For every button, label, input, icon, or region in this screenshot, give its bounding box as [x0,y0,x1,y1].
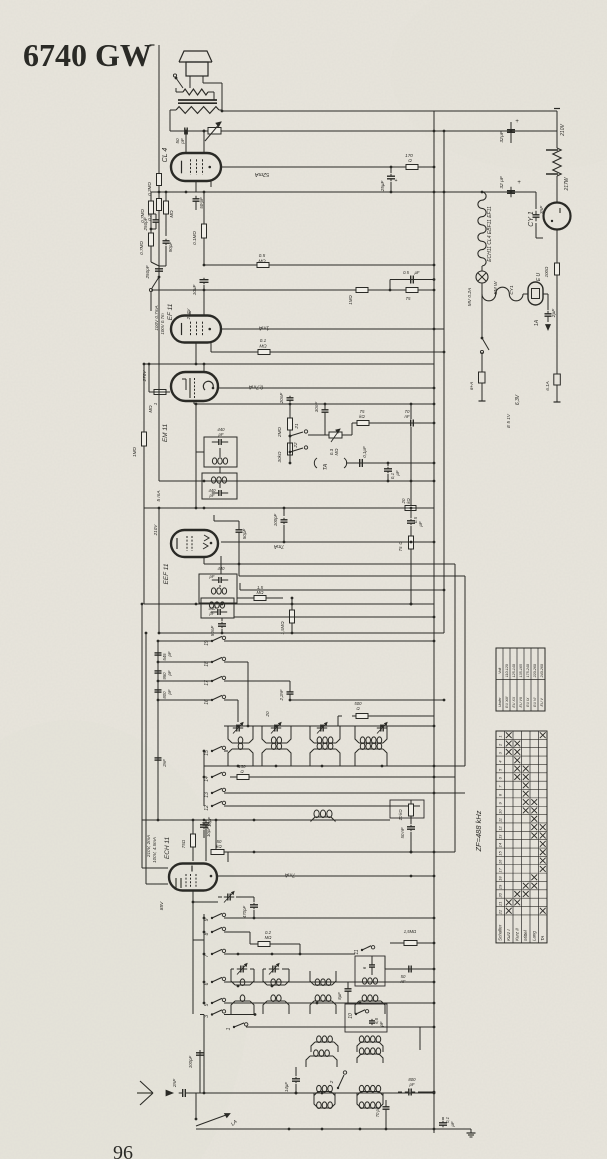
capacitor 800pF b [398,1077,435,1096]
resistor 1.5M osc [390,929,435,946]
resistor 50k [211,820,228,862]
cap stack vertical [157,641,159,820]
capacitor 32uF [499,119,519,143]
svg-text:17: 17 [498,867,503,872]
svg-text:30kΩ: 30kΩ [277,451,282,462]
loop 10k box [390,800,424,818]
svg-text:13: 13 [498,834,503,839]
label feeds [146,835,157,863]
switch o8 [204,927,226,935]
trimmer C-m [317,723,327,734]
capacitor c6 [362,956,375,975]
svg-text:14µF: 14µF [284,1082,289,1092]
switch LA [195,1093,240,1128]
resistor 0.7M b [164,191,175,236]
trimmer C-kw1 [233,723,243,734]
resistor 170ohm [398,153,426,170]
svg-text:EF 11: EF 11 [167,303,174,320]
tube EU [523,272,543,305]
resistor 0.2M b [147,192,162,221]
svg-text:EU V: EU V [540,697,544,706]
svg-text:6,3V: 6,3V [515,394,521,405]
wire [143,508,145,604]
switch a1 [226,1023,248,1031]
svg-text:96: 96 [113,1142,133,1159]
capacitor 100pF a [188,1050,204,1093]
svg-text:100Ω: 100Ω [544,266,549,277]
wire b19 [224,640,435,643]
svg-text:18: 18 [498,876,503,881]
svg-text:175-240: 175-240 [526,664,530,677]
capacitor 10uF [192,278,209,296]
svg-text:100V, 4.5mA: 100V, 4.5mA [152,837,157,863]
label 210V a [186,308,191,321]
wire arrow 1A [534,319,550,330]
svg-text:Schalter: Schalter [498,924,503,941]
IF1 coil [212,458,227,464]
svg-text:Mittel: Mittel [523,929,528,941]
switch gram [149,274,160,292]
osc feedback coil [290,810,390,821]
IF2 coil [211,477,226,483]
ant top box [345,1004,387,1032]
ground [460,1129,476,1137]
svg-text:2nF: 2nF [162,759,167,768]
svg-text:EU VI: EU VI [533,698,537,707]
loop cap 0.5uF [390,270,435,290]
svg-text:µF: µF [415,270,420,275]
capacitor 545pF [155,651,173,661]
capacitor 22nF [279,681,294,702]
anode em 0.7mA [218,384,435,390]
svg-text:217W: 217W [564,176,570,191]
wire ech feeds [142,820,168,884]
svg-text:52mA: 52mA [254,171,269,177]
wire anode 52mA [221,166,435,177]
rail ant2 [196,1128,460,1131]
resistor 75ohm ech [181,820,196,861]
rail 982 [224,981,435,988]
capacitor 0.1uF a [356,446,367,467]
svg-text:20: 20 [265,711,270,718]
rail 1003 [224,1002,435,1005]
svg-text:MΩ: MΩ [258,259,266,264]
tube CL4 [171,153,221,181]
svg-text:18: 18 [204,661,210,667]
wire speaker feed [150,45,160,167]
resistor 100ohm [544,262,560,277]
wire [190,290,204,316]
svg-text:EEF 11: EEF 11 [163,563,170,584]
capacitor 10pF b [200,823,211,838]
IF1 box [204,437,237,467]
trimmer o1 [231,964,254,975]
svg-text:32: 32 [499,183,505,189]
svg-text:1A: 1A [534,319,540,326]
rail 852 [221,851,455,854]
svg-text:85V: 85V [159,901,165,910]
svg-text:0,1µF: 0,1µF [362,446,367,458]
svg-text:22: 22 [498,909,503,915]
wire [158,217,160,479]
resistor 0.7M a [140,192,154,229]
capacitor 50nF b [400,825,415,854]
capacitor 2nF st [155,756,168,768]
svg-text:6740 GW: 6740 GW [23,37,152,73]
wire [195,204,197,210]
svg-text:CL 4: CL 4 [162,148,169,163]
svg-text:CY 1: CY 1 [528,211,535,227]
svg-text:1,5MΩ: 1,5MΩ [404,929,417,934]
wire [195,403,220,510]
wire em feed [149,364,151,392]
tube CL4 label [162,148,169,163]
rail 969 [385,956,435,984]
svg-text:EU VII: EU VII [519,697,523,707]
capacitor 50pF [175,128,191,145]
switch o11 [354,946,375,955]
svg-text:50¹pF: 50¹pF [199,197,204,209]
svg-text:125-140: 125-140 [512,664,516,677]
svg-text:pF: pF [379,1021,384,1027]
svg-text:MΩ: MΩ [334,448,339,456]
capacitor 90pF [163,239,174,252]
wire [193,901,218,903]
wire right vert [556,111,558,148]
wire [556,176,558,202]
svg-text:1: 1 [153,402,158,405]
svg-text:6+A: 6+A [469,382,474,390]
switch 12 [204,801,226,811]
svg-text:210V: 210V [560,124,566,137]
coil KW1 upper [228,726,253,744]
svg-text:MΩ: MΩ [148,405,153,413]
switch mains [480,290,489,354]
wire [192,891,195,940]
svg-text:100pF: 100pF [273,513,278,526]
coil M upper [310,726,340,744]
svg-text:21: 21 [294,423,299,430]
feed verticals [141,603,148,820]
svg-text:MΩ: MΩ [265,935,273,940]
arrow ant [166,1090,173,1096]
svg-text:pF: pF [375,1106,380,1112]
resistor 150ohm [230,764,256,780]
svg-text:90pF: 90pF [168,241,173,253]
svg-text:21: 21 [498,901,503,906]
svg-text:pF: pF [167,651,172,657]
potentiometer P1 [205,122,221,141]
resistor 1M rail290 [348,288,368,305]
wire pins ef [196,342,211,364]
wire 500 [338,716,434,726]
tone wire [342,422,435,435]
resistor 0.1M h [211,338,445,355]
svg-text:14: 14 [498,842,503,847]
svg-text:19: 19 [204,640,210,646]
rail 290 [151,289,435,292]
capacitor 50nF [210,618,226,636]
svg-text:2µF: 2µF [551,308,557,318]
switch o9 [204,913,226,921]
trimmer C-kw2 [265,711,281,733]
loudspeaker LS [179,51,212,76]
switch 14 [204,772,226,782]
capacitor 100pF [273,508,288,542]
svg-text:20nF: 20nF [279,392,284,405]
svg-text:100pF: 100pF [188,1056,193,1069]
svg-text:0,7mA: 0,7mA [248,384,263,390]
label EM11 [162,423,169,442]
rail b4 [157,699,212,702]
resistor 500ohm [352,701,372,719]
svg-text:100V 0.7mA: 100V 0.7mA [154,305,159,330]
svg-text:12: 12 [204,805,210,811]
svg-text:11: 11 [498,818,503,822]
capacitor 20nF [279,392,294,436]
svg-text:Volt: Volt [498,667,502,674]
svg-text:ECH11 CL4 EBF11 EF11: ECH11 CL4 EBF11 EF11 [487,206,493,262]
switch a3 [204,1010,226,1018]
resistor 0.1M [192,192,207,265]
rail ant [188,1092,435,1095]
wire [176,92,214,100]
svg-text:+: + [395,178,398,184]
svg-text:240-260: 240-260 [540,664,544,678]
rail 364 [143,363,434,366]
svg-text:5 mA: 5 mA [156,490,162,501]
svg-text:1,5MΩ: 1,5MΩ [280,621,285,635]
svg-text:75: 75 [406,296,411,301]
svg-text:2MΩ: 2MΩ [277,427,282,438]
svg-text:0.7MΩ: 0.7MΩ [139,241,144,255]
svg-text:3: 3 [204,1015,210,1018]
ant coil KW lower [306,1050,337,1067]
switch 22 [289,442,308,453]
svg-text:110-120: 110-120 [505,664,509,677]
anode 7mA [218,872,435,878]
transformer T1 secondary [183,89,208,95]
label ECH11 [164,836,171,859]
wire [554,385,561,402]
anode 1mA [221,325,444,331]
label 7mA b [273,543,284,549]
capacitor 6.8pF [369,1017,384,1027]
rail b3 [157,680,212,683]
svg-text:2: 2 [329,1080,334,1084]
osc coil KW1 [231,969,254,986]
svg-text:MV 0.2A: MV 0.2A [467,288,473,306]
osc lower L [355,995,385,1014]
svg-text:10pF: 10pF [207,817,212,827]
tube ECH11 [169,864,217,891]
TA input [314,458,346,470]
wire [190,76,222,111]
svg-text:pF: pF [408,1082,414,1087]
svg-text:0.1: 0.1 [260,338,267,343]
tube EM11 [171,372,218,401]
wire [186,130,205,153]
antenna [137,1081,153,1105]
svg-text:µF: µF [450,1121,455,1126]
svg-text:135-165: 135-165 [519,664,523,677]
wire [194,364,204,404]
svg-text:kΩ: kΩ [359,414,365,419]
svg-text:EM 11: EM 11 [162,423,169,442]
svg-text:50: 50 [400,833,405,838]
svg-text:6.1A: 6.1A [545,381,550,390]
anode eef [221,541,435,544]
switch 19 [204,636,226,646]
svg-text:pF: pF [209,574,215,579]
ant coil KW upper [311,1036,338,1052]
bus vertical D [464,576,466,766]
capacitor 250pF [143,214,160,232]
wire [224,792,465,795]
wire [170,110,222,131]
svg-text:10: 10 [498,809,503,814]
svg-text:MΩ: MΩ [257,590,265,595]
resistor 1.5M h [237,585,283,601]
svg-text:kΩ: kΩ [406,498,411,504]
switch a10 [348,1010,369,1019]
IF3 box [199,574,237,603]
svg-text:220-260: 220-260 [533,664,537,678]
wire b16 [224,699,445,722]
wire [536,192,557,262]
svg-text:E 5 1V: E 5 1V [506,413,511,428]
heater chain [478,192,486,266]
osc coil M [310,971,336,986]
coil L upper [355,726,387,744]
label heater [487,206,493,262]
IF4 coil [209,602,224,608]
capacitor 0.1uF end [439,1116,455,1127]
switch 18 [204,657,226,667]
rail b1 [157,640,212,643]
wire [220,556,221,587]
rail 604 [144,603,434,606]
svg-text:pF: pF [167,689,172,695]
osc coil KW2 [263,969,289,986]
resistor 20k [401,404,416,511]
svg-text:10pF: 10pF [206,827,211,837]
capacitor 70nF [404,409,417,427]
resistor 1M em [148,390,170,413]
switch a4 [329,1071,347,1089]
ant coil L13 [314,1093,383,1109]
switch 17 [204,676,226,686]
heater wavy to EU [482,283,523,301]
svg-text:50pF: 50pF [242,528,247,540]
wire [219,467,221,488]
wire ant verts [200,1015,420,1094]
wire rail2 [170,130,557,133]
wire [481,352,483,372]
svg-text:pF: pF [209,611,215,616]
svg-text:19: 19 [498,884,503,889]
capacitor 32uF b [499,175,521,197]
resistor 0.7M c [139,228,156,262]
svg-text:Lang: Lang [532,931,537,941]
osc lower M [310,995,336,1014]
fuse F1 [545,374,560,391]
table voltage selector [496,648,545,711]
switch o7 [204,949,226,957]
svg-text:CY1: CY1 [509,285,515,295]
page number [113,1142,133,1159]
coil M lower [310,743,340,766]
lamp dial [476,266,488,283]
svg-text:TA: TA [323,463,329,470]
bus rail 564 [204,556,455,564]
svg-text:pF: pF [167,670,172,676]
svg-text:Ω: Ω [408,158,412,163]
bus vertical B [443,131,445,633]
svg-text:20: 20 [498,892,503,898]
svg-text:µF: µF [418,521,423,527]
svg-text:12: 12 [498,825,503,830]
wire [479,383,486,401]
label EF11 [160,303,174,334]
svg-text:16: 16 [204,699,210,705]
capacitor 440pF b [209,488,229,498]
coil KW2 upper [262,726,291,744]
svg-text:25µF: 25µF [380,180,385,193]
label 210V b [153,524,158,537]
resistor 10k [398,800,414,824]
rail 404 [194,403,435,406]
capacitor 470pF [242,902,258,919]
capacitor 30nF [314,401,329,435]
svg-text:Kurz I: Kurz I [506,929,511,941]
switch o5 [204,998,226,1006]
resistor 75ohm b [398,526,414,605]
svg-text:Kurz II: Kurz II [515,927,520,940]
capacitor 440pF c [209,566,229,583]
label lamp [467,281,499,306]
svg-text:2nF: 2nF [172,1078,178,1088]
resistor mains dropper [546,148,570,192]
trimmer C-l [377,723,387,734]
svg-text:pF: pF [209,493,215,498]
rail b2 [157,661,212,664]
node [221,110,224,113]
capacitor 950pF [155,669,173,680]
svg-text:7mA: 7mA [273,543,284,549]
transformer T1 primary [176,107,219,114]
label 85V [159,901,165,910]
wire [158,266,160,481]
svg-text:kΩ: kΩ [398,809,403,815]
label 6.3V [515,394,521,405]
capacitor 14uF [284,1067,300,1094]
svg-text:µF: µF [395,470,400,476]
wire b18 [224,662,249,727]
label CY1 [528,211,535,227]
capacitor 2nF ant [172,1078,189,1097]
bus rail 576 [239,575,465,577]
rail 766 [204,765,465,768]
rail 633 [158,632,444,635]
svg-text:+: + [517,180,521,186]
wire rail 192 [158,191,536,194]
capacitor 800pF [155,688,173,699]
resistor 0.2M osc [250,930,300,947]
svg-text:+: + [515,119,519,125]
bus vertical C [454,564,456,852]
svg-text:TA: TA [540,936,545,941]
